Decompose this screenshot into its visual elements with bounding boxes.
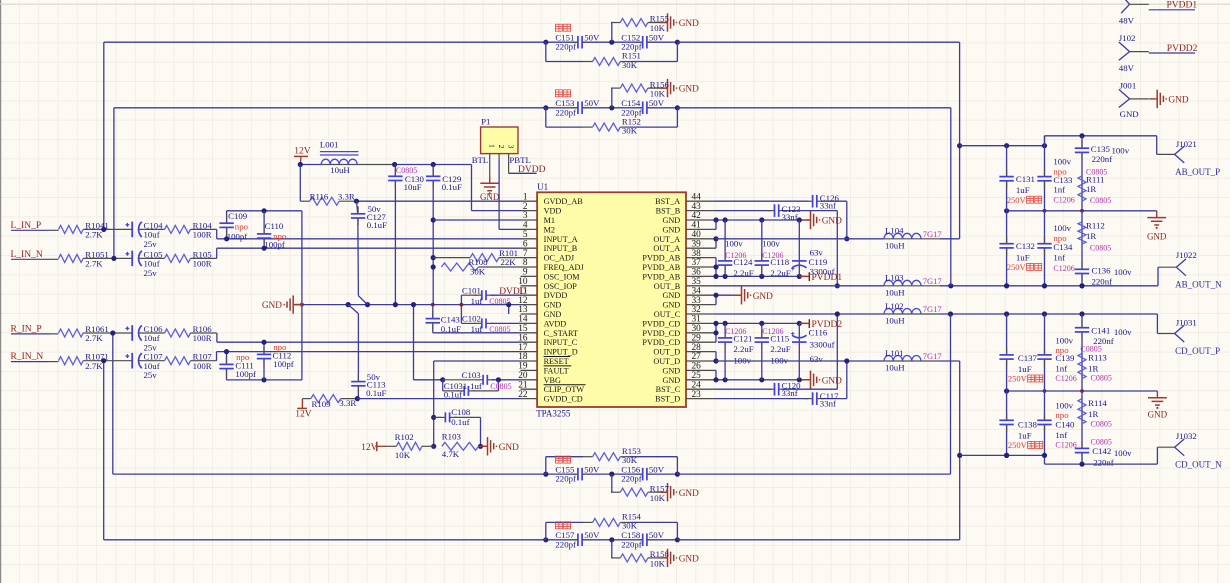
svg-text:M2: M2 <box>544 225 555 234</box>
svg-text:25v: 25v <box>144 268 158 278</box>
svg-text:GND: GND <box>662 291 680 300</box>
svg-text:DVDD: DVDD <box>499 287 527 297</box>
svg-text:CD_OUT_P: CD_OUT_P <box>1175 346 1220 356</box>
svg-text:10uF: 10uF <box>404 182 422 192</box>
svg-text:1: 1 <box>488 144 497 148</box>
svg-text:220pf: 220pf <box>555 107 576 117</box>
svg-text:220pf: 220pf <box>621 539 642 549</box>
svg-text:OUT_C: OUT_C <box>654 310 681 319</box>
svg-text:GND: GND <box>679 85 699 95</box>
svg-text:30K: 30K <box>622 60 638 70</box>
svg-text:0.1uf: 0.1uf <box>451 417 469 427</box>
svg-text:C108: C108 <box>451 407 471 417</box>
svg-text:C135: C135 <box>1091 144 1111 154</box>
svg-text:J102: J102 <box>1119 33 1136 43</box>
svg-text:100R: 100R <box>193 230 212 240</box>
svg-text:C136: C136 <box>1092 265 1112 275</box>
svg-text:J1022: J1022 <box>1176 250 1197 260</box>
svg-text:0.1uF: 0.1uF <box>441 324 461 334</box>
svg-text:100v: 100v <box>733 355 751 365</box>
svg-text:C101: C101 <box>462 285 481 295</box>
svg-text:L_IN_N: L_IN_N <box>11 250 43 260</box>
svg-text:220nf: 220nf <box>1092 154 1113 164</box>
svg-text:100R: 100R <box>193 259 212 269</box>
svg-text:7G17: 7G17 <box>923 276 942 286</box>
svg-text:1R: 1R <box>1088 363 1098 373</box>
svg-text:R111: R111 <box>1086 175 1104 185</box>
svg-text:AB_OUT_N: AB_OUT_N <box>1175 280 1222 290</box>
svg-text:GND: GND <box>753 292 773 302</box>
svg-text:2: 2 <box>497 145 506 149</box>
svg-text:30K: 30K <box>622 521 638 531</box>
svg-text:2.2uF: 2.2uF <box>733 344 753 354</box>
svg-text:R113: R113 <box>1088 353 1107 363</box>
svg-text:C102: C102 <box>462 314 481 324</box>
svg-text:GND: GND <box>679 489 699 499</box>
svg-text:OSC_IOM: OSC_IOM <box>544 272 581 281</box>
svg-text:30K: 30K <box>622 125 638 135</box>
svg-text:J1021: J1021 <box>1176 139 1197 149</box>
svg-text:C0805: C0805 <box>1091 419 1112 428</box>
svg-text:220pf: 220pf <box>621 474 642 484</box>
svg-text:1nf: 1nf <box>1053 185 1065 195</box>
svg-text:1R: 1R <box>1086 231 1096 241</box>
svg-text:PVDD1: PVDD1 <box>1167 1 1198 11</box>
svg-text:12V: 12V <box>295 409 312 419</box>
svg-text:0.1uF: 0.1uF <box>367 220 387 230</box>
svg-text:250V: 250V <box>1008 374 1028 384</box>
svg-text:2.7K: 2.7K <box>85 333 103 343</box>
svg-text:33nf: 33nf <box>820 200 836 210</box>
svg-text:C1206: C1206 <box>1053 196 1074 205</box>
svg-text:C115: C115 <box>770 333 789 343</box>
svg-text:PVDD_AB: PVDD_AB <box>642 263 680 272</box>
svg-text:R102: R102 <box>395 432 414 442</box>
svg-text:J001: J001 <box>1120 80 1137 90</box>
svg-text:C0805: C0805 <box>489 297 510 306</box>
svg-text:L104: L104 <box>885 226 904 236</box>
svg-text:48V: 48V <box>1119 63 1135 73</box>
svg-text:0.1uF: 0.1uF <box>442 182 462 192</box>
svg-text:C138: C138 <box>1018 419 1038 429</box>
svg-text:L103: L103 <box>885 273 904 283</box>
svg-text:2.7K: 2.7K <box>85 230 103 240</box>
svg-text:3.3R: 3.3R <box>339 398 356 408</box>
svg-text:GND: GND <box>662 301 680 310</box>
svg-text:J1032: J1032 <box>1176 431 1197 441</box>
svg-text:OUT_A: OUT_A <box>653 235 680 244</box>
svg-text:C139: C139 <box>1055 353 1075 363</box>
svg-text:C116: C116 <box>809 328 828 338</box>
svg-text:C118: C118 <box>770 257 789 267</box>
svg-text:R109: R109 <box>312 399 332 409</box>
svg-text:INPUT_B: INPUT_B <box>544 244 578 253</box>
svg-text:INPUT_C: INPUT_C <box>544 338 578 347</box>
svg-text:L102: L102 <box>885 301 904 311</box>
svg-text:OUT_B: OUT_B <box>654 282 681 291</box>
svg-text:10uH: 10uH <box>885 316 905 326</box>
svg-text:C0805: C0805 <box>1091 374 1112 383</box>
svg-text:50V: 50V <box>649 32 665 42</box>
svg-text:250V: 250V <box>1007 195 1027 205</box>
svg-text:22: 22 <box>518 390 528 400</box>
svg-text:C142: C142 <box>1092 446 1111 456</box>
svg-text:1uF: 1uF <box>1018 364 1032 374</box>
svg-text:GND: GND <box>822 376 842 386</box>
svg-text:100pf: 100pf <box>273 359 294 369</box>
svg-text:0.1uf: 0.1uf <box>444 390 462 400</box>
svg-text:0.1uF: 0.1uF <box>366 388 386 398</box>
svg-text:BST_A: BST_A <box>655 197 680 206</box>
svg-text:22K: 22K <box>501 257 517 267</box>
svg-text:1uf: 1uf <box>471 296 483 306</box>
svg-text:100v: 100v <box>1114 267 1132 277</box>
svg-text:GND: GND <box>822 217 842 227</box>
svg-text:GND: GND <box>1168 96 1188 106</box>
svg-text:2.2uF: 2.2uF <box>733 268 753 278</box>
svg-text:3300uf: 3300uf <box>810 339 835 349</box>
svg-text:3.3R: 3.3R <box>338 191 355 201</box>
svg-text:U1: U1 <box>537 182 548 192</box>
svg-text:100v: 100v <box>1053 223 1071 233</box>
svg-text:23: 23 <box>692 390 702 400</box>
svg-text:PVDD_AB: PVDD_AB <box>642 254 680 263</box>
svg-text:R112: R112 <box>1086 221 1105 231</box>
svg-text:C0805: C0805 <box>1090 243 1111 252</box>
svg-text:50V: 50V <box>584 98 600 108</box>
svg-text:25v: 25v <box>144 370 158 380</box>
svg-text:BST_B: BST_B <box>656 207 681 216</box>
svg-text:7G17: 7G17 <box>923 229 942 239</box>
svg-text:TPA3255: TPA3255 <box>536 408 571 418</box>
svg-text:1R: 1R <box>1088 409 1098 419</box>
svg-text:M1: M1 <box>544 216 555 225</box>
svg-text:PVDD_CD: PVDD_CD <box>642 338 680 347</box>
svg-text:OUT_D: OUT_D <box>653 348 680 357</box>
svg-text:C110: C110 <box>265 221 284 231</box>
svg-text:GND: GND <box>662 376 680 385</box>
svg-text:PVDD_CD: PVDD_CD <box>642 319 680 328</box>
svg-text:12V: 12V <box>361 443 378 453</box>
svg-text:10uH: 10uH <box>885 363 905 373</box>
svg-text:250V: 250V <box>1007 262 1027 272</box>
svg-text:L001: L001 <box>320 139 339 149</box>
svg-text:33nf: 33nf <box>782 388 798 398</box>
svg-text:OUT_A: OUT_A <box>653 244 680 253</box>
svg-text:100pf: 100pf <box>235 369 256 379</box>
svg-text:GVDD_CD: GVDD_CD <box>544 395 583 404</box>
svg-text:100pf: 100pf <box>227 231 248 241</box>
svg-text:R_IN_N: R_IN_N <box>11 352 44 362</box>
svg-text:C1206: C1206 <box>1055 440 1076 449</box>
svg-text:R114: R114 <box>1088 398 1107 408</box>
svg-text:R103: R103 <box>442 432 462 442</box>
svg-text:FREQ_ADJ: FREQ_ADJ <box>544 263 585 272</box>
svg-text:1uF: 1uF <box>1018 430 1032 440</box>
svg-text:7G17: 7G17 <box>923 351 942 361</box>
svg-text:GND: GND <box>262 301 282 311</box>
svg-text:C1206: C1206 <box>1055 374 1076 383</box>
svg-text:100R: 100R <box>193 361 212 371</box>
svg-text:220pf: 220pf <box>555 42 576 52</box>
svg-text:220pf: 220pf <box>555 539 576 549</box>
svg-text:OC_ADJ: OC_ADJ <box>544 254 575 263</box>
svg-text:100v: 100v <box>1114 327 1132 337</box>
svg-text:30K: 30K <box>622 455 638 465</box>
svg-text:100v: 100v <box>725 238 743 248</box>
svg-text:C131: C131 <box>1016 174 1035 184</box>
svg-text:GND: GND <box>662 225 680 234</box>
svg-text:10K: 10K <box>650 23 666 33</box>
svg-text:CLIP_OTW: CLIP_OTW <box>544 385 585 394</box>
svg-text:OSC_IOP: OSC_IOP <box>544 282 578 291</box>
svg-text:48V: 48V <box>1119 16 1135 26</box>
svg-text:C_START: C_START <box>544 329 578 338</box>
svg-text:1nf: 1nf <box>1053 253 1065 263</box>
svg-text:C103: C103 <box>462 370 482 380</box>
svg-text:P1: P1 <box>481 117 490 127</box>
svg-text:1uF: 1uF <box>1016 185 1030 195</box>
svg-text:220nf: 220nf <box>1092 276 1113 286</box>
svg-text:1R: 1R <box>1086 184 1096 194</box>
svg-text:GND: GND <box>544 301 562 310</box>
svg-text:GND: GND <box>679 19 699 29</box>
svg-text:C141: C141 <box>1091 325 1110 335</box>
svg-text:npo: npo <box>235 222 249 232</box>
svg-text:C133: C133 <box>1053 175 1073 185</box>
svg-text:CD_OUT_N: CD_OUT_N <box>1175 460 1222 470</box>
svg-text:10K: 10K <box>650 89 666 99</box>
svg-text:GND: GND <box>679 555 699 565</box>
svg-text:33nf: 33nf <box>782 212 798 222</box>
svg-text:OUT_D: OUT_D <box>653 357 680 366</box>
svg-text:63v: 63v <box>810 354 824 364</box>
svg-text:C134: C134 <box>1053 242 1073 252</box>
svg-text:VBG: VBG <box>544 376 561 385</box>
svg-text:C0805: C0805 <box>490 382 511 391</box>
svg-text:10uH: 10uH <box>330 165 350 175</box>
svg-text:C109: C109 <box>228 211 248 221</box>
svg-text:220nf: 220nf <box>1093 457 1114 467</box>
svg-text:PBTL: PBTL <box>509 155 531 165</box>
svg-text:1nf: 1nf <box>1055 430 1067 440</box>
svg-text:C132: C132 <box>1016 241 1035 251</box>
svg-text:100v: 100v <box>770 355 788 365</box>
svg-text:FAULT: FAULT <box>544 366 569 375</box>
svg-text:AVDD: AVDD <box>544 319 567 328</box>
svg-text:GND: GND <box>1120 109 1139 119</box>
svg-text:DVDD: DVDD <box>518 165 546 175</box>
svg-text:AB_OUT_P: AB_OUT_P <box>1175 167 1220 177</box>
svg-text:PVDD_CD: PVDD_CD <box>642 329 680 338</box>
svg-text:50V: 50V <box>649 530 665 540</box>
svg-text:10K: 10K <box>650 493 666 503</box>
svg-text:GND: GND <box>480 192 500 202</box>
svg-text:10K: 10K <box>395 450 411 460</box>
svg-text:2.7K: 2.7K <box>85 259 103 269</box>
svg-text:GND: GND <box>662 216 680 225</box>
svg-text:C140: C140 <box>1055 419 1075 429</box>
svg-text:100R: 100R <box>193 333 212 343</box>
svg-text:100v: 100v <box>1053 157 1071 167</box>
svg-text:100v: 100v <box>1112 145 1130 155</box>
svg-text:2.2uF: 2.2uF <box>770 268 790 278</box>
svg-text:50V: 50V <box>584 464 600 474</box>
svg-text:GND: GND <box>1147 232 1167 242</box>
svg-text:C0805: C0805 <box>1090 196 1111 205</box>
svg-text:L_IN_P: L_IN_P <box>11 221 42 231</box>
svg-text:BST_D: BST_D <box>655 395 680 404</box>
svg-text:2.7K: 2.7K <box>85 361 103 371</box>
svg-text:C121: C121 <box>733 333 752 343</box>
svg-text:2.2uF: 2.2uF <box>770 344 790 354</box>
svg-text:PVDD_AB: PVDD_AB <box>642 272 680 281</box>
svg-text:1nf: 1nf <box>1055 364 1067 374</box>
svg-text:C119: C119 <box>809 257 828 267</box>
svg-text:50V: 50V <box>649 464 665 474</box>
svg-text:DVDD: DVDD <box>544 291 568 300</box>
svg-text:J1031: J1031 <box>1176 317 1197 327</box>
svg-text:100v: 100v <box>1114 448 1132 458</box>
svg-text:INPUT_A: INPUT_A <box>544 235 578 244</box>
svg-text:220pf: 220pf <box>555 474 576 484</box>
svg-text:25v: 25v <box>144 239 158 249</box>
svg-text:BTL: BTL <box>472 155 489 165</box>
svg-text:C137: C137 <box>1018 353 1038 363</box>
svg-text:50V: 50V <box>584 32 600 42</box>
svg-text:50V: 50V <box>584 530 600 540</box>
svg-text:GND: GND <box>544 310 562 319</box>
svg-text:3: 3 <box>507 145 516 149</box>
svg-text:RESET: RESET <box>544 357 569 366</box>
svg-text:C124: C124 <box>733 257 753 267</box>
svg-text:GND: GND <box>499 443 519 453</box>
svg-text:R_IN_P: R_IN_P <box>11 324 42 334</box>
svg-text:10K: 10K <box>650 559 666 569</box>
svg-text:VDD: VDD <box>544 207 562 216</box>
svg-text:R108: R108 <box>469 257 489 267</box>
svg-text:BST_C: BST_C <box>656 385 681 394</box>
svg-text:33nf: 33nf <box>820 398 836 408</box>
svg-text:50V: 50V <box>649 98 665 108</box>
svg-text:R116: R116 <box>310 191 329 201</box>
svg-text:1uf: 1uf <box>470 381 482 391</box>
svg-text:3300uf: 3300uf <box>810 267 835 277</box>
svg-text:C1206: C1206 <box>1053 264 1074 273</box>
svg-text:GND: GND <box>662 366 680 375</box>
svg-text:L101: L101 <box>885 348 904 358</box>
svg-text:4.7K: 4.7K <box>442 449 460 459</box>
svg-text:30K: 30K <box>470 267 486 277</box>
svg-text:100v: 100v <box>762 238 780 248</box>
svg-text:250V: 250V <box>1008 440 1028 450</box>
svg-text:1uF: 1uF <box>1016 252 1030 262</box>
svg-text:INPUT_D: INPUT_D <box>544 348 578 357</box>
svg-text:100pf: 100pf <box>264 240 285 250</box>
svg-text:GVDD_AB: GVDD_AB <box>544 197 584 206</box>
svg-text:GND: GND <box>1148 409 1168 419</box>
svg-text:12V: 12V <box>294 147 311 157</box>
svg-text:7G17: 7G17 <box>923 304 942 314</box>
svg-text:10uH: 10uH <box>885 287 905 297</box>
svg-text:10uH: 10uH <box>885 240 905 250</box>
